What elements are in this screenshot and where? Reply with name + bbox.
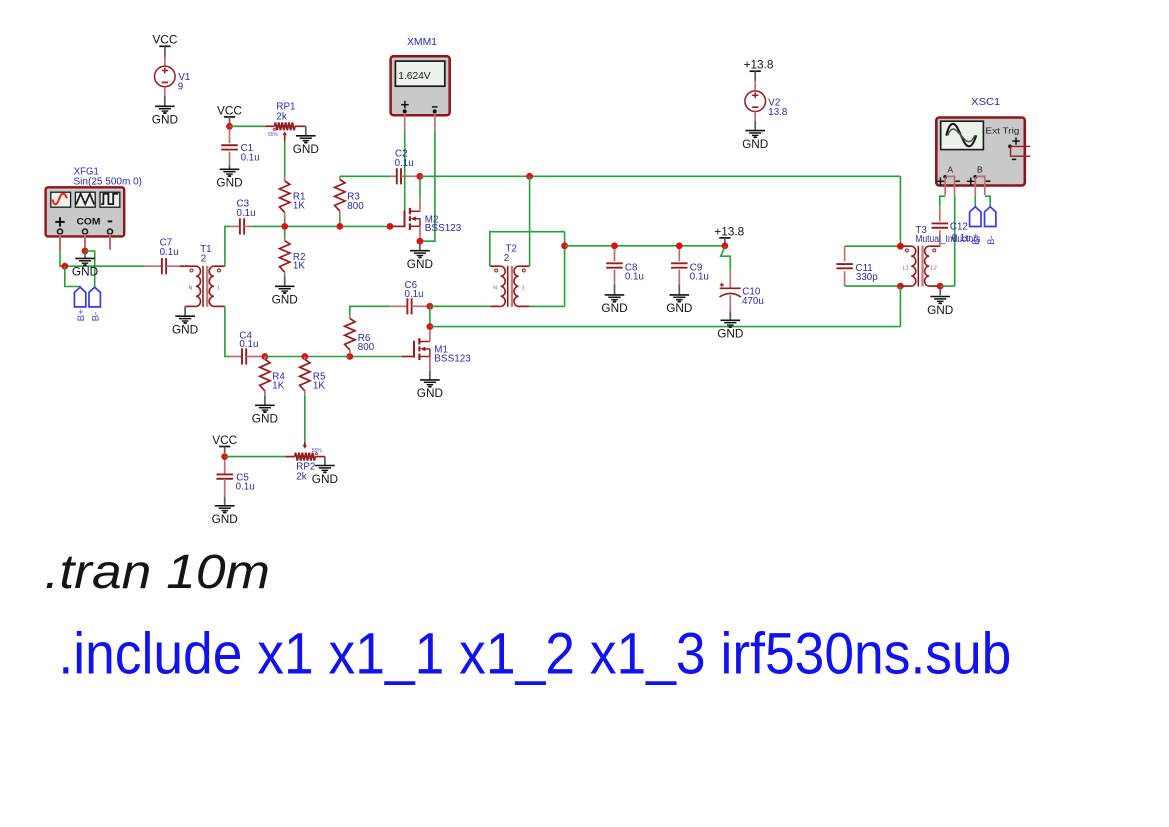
- wire RP1 wiper to R1: [284, 141, 286, 176]
- svg-text:GND: GND: [252, 412, 278, 426]
- svg-text:1K: 1K: [293, 261, 305, 272]
- wire C9 to ground: [678, 284, 680, 294]
- wire RP1 right to ground: [305, 126, 307, 135]
- svg-text:.include x1 x1_1 x1_2 x1_3 irf: .include x1 x1_1 x1_2 x1_3 irf530ns.sub: [58, 621, 1011, 686]
- svg-text:BSS123: BSS123: [425, 223, 462, 234]
- svg-text:GND: GND: [417, 386, 443, 400]
- wire T3 to ground: [939, 289, 941, 296]
- resistor R3 800: [335, 176, 365, 223]
- svg-text:VCC: VCC: [152, 33, 177, 47]
- svg-text:COM: COM: [77, 217, 101, 227]
- node junction M1 drain / bottom bus: [427, 323, 434, 330]
- wire C1 to ground: [229, 165, 231, 169]
- wire bottom bus to T3: [430, 326, 901, 328]
- capacitor C10 470u polarized: [720, 271, 764, 311]
- node junction R3 bottom: [336, 223, 343, 230]
- svg-text:BSS123: BSS123: [434, 353, 471, 364]
- svg-text:470u: 470u: [742, 296, 764, 307]
- wire C10 to ground: [729, 311, 731, 320]
- wire T2 primary top loop: [490, 232, 565, 267]
- svg-text:GND: GND: [312, 472, 338, 486]
- wire scope A+ to C12: [940, 177, 945, 206]
- label T3 Mutual_Inductors: [915, 225, 980, 245]
- wire scope B+ to connector: [974, 177, 976, 207]
- node junction +13.8/C10: [722, 242, 729, 249]
- svg-text:B-: B-: [91, 312, 102, 322]
- capacitor C4 0.1u: [230, 331, 262, 365]
- svg-text:0.1u: 0.1u: [160, 247, 179, 258]
- svg-text:Mutual_Inductors: Mutual_Inductors: [915, 234, 980, 245]
- svg-text:GND: GND: [407, 257, 433, 271]
- connector B-: [89, 287, 102, 321]
- svg-text:0.1u: 0.1u: [236, 482, 255, 493]
- svg-text:55%: 55%: [268, 132, 279, 138]
- wire +13.8 stub: [724, 238, 726, 243]
- svg-text:2k: 2k: [276, 111, 286, 122]
- wire gate bus C3 node to M2 gate: [288, 225, 387, 227]
- svg-text:GND: GND: [272, 293, 298, 307]
- svg-text:GND: GND: [666, 301, 692, 315]
- wire RP2 right to ground: [324, 457, 326, 466]
- connector B- (scope): [985, 207, 997, 245]
- svg-text:GND: GND: [152, 113, 178, 127]
- wire VCC to V1: [164, 46, 166, 66]
- svg-text:800: 800: [347, 201, 364, 212]
- svg-text:1: 1: [522, 285, 525, 291]
- wire Ext Trig stub: [1010, 146, 1030, 156]
- capacitor C5 0.1u: [216, 460, 254, 497]
- transformer T1: [180, 244, 225, 307]
- wire VCC to node: [224, 447, 226, 454]
- wire gate bus M1 row: [350, 356, 402, 358]
- node junction C8: [611, 242, 618, 249]
- ground GND (RP1): [293, 136, 319, 156]
- power net VCC (V1 top): [152, 33, 177, 47]
- svg-text:2k: 2k: [296, 471, 306, 482]
- node junction VCC/C1/RP1: [226, 123, 233, 130]
- svg-text:Ext Trig: Ext Trig: [985, 126, 1020, 135]
- wire T2 right vertical: [564, 232, 566, 307]
- wire jog to C10: [721, 247, 731, 271]
- wire bus down to T3: [899, 176, 901, 246]
- wire scope A- to T3 ground node: [946, 176, 955, 286]
- wire M1 source to ground: [429, 371, 431, 380]
- svg-text:1K: 1K: [272, 381, 284, 392]
- node junction R5 top: [301, 353, 308, 360]
- svg-text:1: 1: [217, 285, 220, 291]
- svg-text:GND: GND: [601, 301, 627, 315]
- resistor R6 800: [345, 306, 391, 353]
- ground GND (C8): [601, 295, 627, 315]
- wire R4 to ground: [264, 396, 266, 405]
- svg-text:0.1u: 0.1u: [690, 272, 709, 283]
- node junction C3/R1/R2: [281, 223, 288, 230]
- svg-text:1K: 1K: [293, 201, 305, 212]
- svg-text:0.1u: 0.1u: [241, 152, 260, 163]
- node junction C6/T2/M1 drain: [427, 303, 434, 310]
- svg-text:GND: GND: [742, 137, 768, 151]
- capacitor C1 0.1u: [221, 130, 259, 165]
- ground GND (V1): [152, 106, 178, 126]
- label C2 value: [395, 148, 414, 169]
- wire XMM1 - to M2 source: [420, 113, 435, 241]
- node junction M2 source: [417, 238, 424, 245]
- wire COM to connector B-: [85, 251, 95, 287]
- wire C8 to ground: [614, 284, 616, 294]
- svg-text:0.1u: 0.1u: [395, 158, 414, 169]
- power net VCC (RP2/C5): [212, 433, 237, 447]
- svg-text:GND: GND: [172, 323, 198, 337]
- capacitor C11 330p: [836, 246, 900, 286]
- svg-text:B+: B+: [76, 309, 87, 321]
- wire T2 bottom-left: [430, 305, 490, 307]
- capacitor C6 0.1u: [390, 280, 426, 314]
- svg-text:N: N: [493, 285, 497, 291]
- resistor R1 1K: [280, 176, 306, 223]
- svg-text:B-: B-: [986, 236, 996, 245]
- node junction C2/M2 drain: [417, 173, 424, 180]
- resistor R5 1K: [300, 357, 326, 396]
- svg-text:1.624V: 1.624V: [398, 71, 430, 82]
- wire VCC to node: [229, 117, 231, 125]
- node junction XFG+ / B+: [61, 263, 68, 270]
- svg-text:0.1u: 0.1u: [237, 208, 256, 219]
- svg-text:1K: 1K: [313, 381, 325, 392]
- capacitor C7 0.1u: [144, 238, 180, 275]
- svg-text:2: 2: [504, 253, 509, 264]
- svg-text:GND: GND: [293, 142, 319, 156]
- power net VCC (RP1/C1): [217, 103, 242, 117]
- resistor R2 1K: [280, 229, 306, 276]
- label C12 value: [950, 222, 971, 244]
- wire XMM1 + to M2 gate: [404, 113, 406, 210]
- wire VCC node to RP2: [225, 456, 286, 458]
- svg-text:B: B: [977, 164, 983, 174]
- capacitor C12 0.1u: [932, 206, 949, 246]
- wire T1 secondary bottom to C4: [225, 306, 230, 356]
- ground GND (V2): [742, 131, 768, 151]
- wire XFG1 - stub: [109, 234, 111, 250]
- svg-text:L1: L1: [903, 265, 909, 271]
- ground GND (RP2): [312, 466, 338, 486]
- svg-text:XMM1: XMM1: [407, 37, 437, 48]
- wire C5 to ground: [224, 496, 226, 505]
- svg-text:Sin(25 500m 0): Sin(25 500m 0): [74, 176, 143, 187]
- wire VCC node to RP1: [230, 125, 266, 127]
- ground GND (C1): [216, 169, 242, 189]
- svg-text:GND: GND: [717, 327, 743, 341]
- voltage source V2 13.8V: [745, 91, 788, 118]
- svg-text:VCC: VCC: [212, 433, 237, 447]
- power net +13.8 (V2 top): [744, 58, 774, 72]
- wire C6 node down: [429, 306, 431, 326]
- capacitor C3 0.1u: [230, 198, 281, 234]
- node junction T2 top: [526, 173, 533, 180]
- svg-text:L2: L2: [931, 265, 937, 271]
- node junction T3 bottom-left: [897, 283, 904, 290]
- transformer T2: [490, 244, 530, 307]
- svg-text:330p: 330p: [856, 272, 878, 283]
- ground GND (XFG1 COM): [72, 251, 98, 279]
- node junction T3 top-left: [897, 243, 904, 250]
- wire T3 right ground link: [940, 285, 955, 287]
- ground GND (R4): [252, 405, 278, 425]
- function generator XFG1: [46, 166, 142, 236]
- node junction VCC/C5/RP2: [221, 453, 228, 460]
- svg-text:.tran 10m: .tran 10m: [45, 545, 271, 599]
- ground GND (M2): [407, 251, 433, 271]
- mosfet M2 BSS123: [391, 180, 462, 239]
- svg-text:C12: C12: [950, 222, 968, 233]
- wire V1 to ground: [164, 87, 166, 106]
- wire R2 to ground: [284, 276, 286, 285]
- node junction C4/R4: [262, 353, 269, 360]
- capacitor C9 0.1u: [671, 249, 709, 284]
- wire to connector B+: [65, 266, 80, 287]
- svg-text:GND: GND: [927, 303, 953, 317]
- svg-text:13.8: 13.8: [768, 107, 788, 118]
- wire XFG1 COM: [84, 234, 86, 248]
- svg-text:9: 9: [178, 81, 183, 92]
- node junction C9: [676, 242, 683, 249]
- svg-text:55%: 55%: [312, 448, 323, 454]
- capacitor C8 0.1u: [606, 249, 644, 284]
- svg-text:N: N: [189, 285, 193, 291]
- wire T3 bottom to bottom bus: [899, 286, 901, 327]
- wire XFG1 + output: [60, 234, 144, 266]
- svg-text:GND: GND: [72, 265, 98, 279]
- wire scope B- to connector: [976, 176, 990, 206]
- svg-text:XSC1: XSC1: [971, 97, 1000, 108]
- potentiometer RP1 2k 55%: [266, 102, 306, 142]
- ground GND (C5): [212, 506, 238, 526]
- svg-text:0.1u: 0.1u: [952, 233, 971, 244]
- svg-text:0.1u: 0.1u: [625, 272, 644, 283]
- svg-text:+13.8: +13.8: [714, 224, 744, 238]
- ground GND (C10): [717, 320, 743, 340]
- transformer T3 Mutual_Inductors: [900, 246, 940, 287]
- node junction R6 bottom: [346, 353, 353, 360]
- wire R5 to RP2 wiper: [304, 396, 306, 442]
- svg-text:2: 2: [201, 254, 206, 265]
- svg-text:GND: GND: [212, 512, 238, 526]
- svg-text:VCC: VCC: [217, 103, 242, 117]
- capacitor C2 0.1u: [390, 168, 416, 184]
- svg-text:+13.8: +13.8: [744, 58, 774, 72]
- ground GND (R2): [272, 286, 298, 306]
- connector B+ (scope): [970, 207, 982, 245]
- wire V2 to ground: [754, 112, 756, 131]
- ground GND (T1): [172, 316, 198, 336]
- wire main bus (C2 row): [340, 175, 391, 177]
- node junction COM: [82, 248, 89, 255]
- node junction M2 gate: [387, 223, 394, 230]
- svg-text:800: 800: [358, 342, 375, 353]
- potentiometer RP2 2k 55%: [286, 442, 325, 482]
- node junction T3 bottom-right: [937, 283, 944, 290]
- wire bus C2 node to T2 top: [420, 175, 901, 177]
- wire T1 secondary top to C3: [225, 226, 230, 266]
- resistor R4 1K: [260, 357, 286, 396]
- power net +13.8 (output): [714, 224, 744, 238]
- multimeter XMM1: [391, 37, 450, 115]
- svg-text:0.1u: 0.1u: [239, 339, 258, 350]
- ground GND (C9): [666, 295, 692, 315]
- wire T1 primary to ground: [184, 306, 186, 315]
- wire R4-R5 bus: [265, 356, 350, 358]
- wire output bus: [565, 245, 725, 247]
- mosfet M1 BSS123: [402, 330, 471, 371]
- wire +13.8 to V2: [754, 71, 756, 91]
- wire T2 secondary top: [529, 176, 531, 266]
- ground GND (M1): [417, 380, 443, 400]
- wire T2 secondary bottom: [530, 305, 565, 307]
- node junction T2/output bus: [561, 242, 568, 249]
- voltage source V1 9V: [155, 66, 191, 92]
- wire M2 source to ground: [419, 243, 421, 250]
- oscilloscope XSC1: [936, 97, 1025, 186]
- svg-text:A: A: [947, 164, 953, 174]
- ground GND (T3): [927, 297, 953, 317]
- svg-text:GND: GND: [216, 176, 242, 190]
- connector B+: [74, 287, 87, 321]
